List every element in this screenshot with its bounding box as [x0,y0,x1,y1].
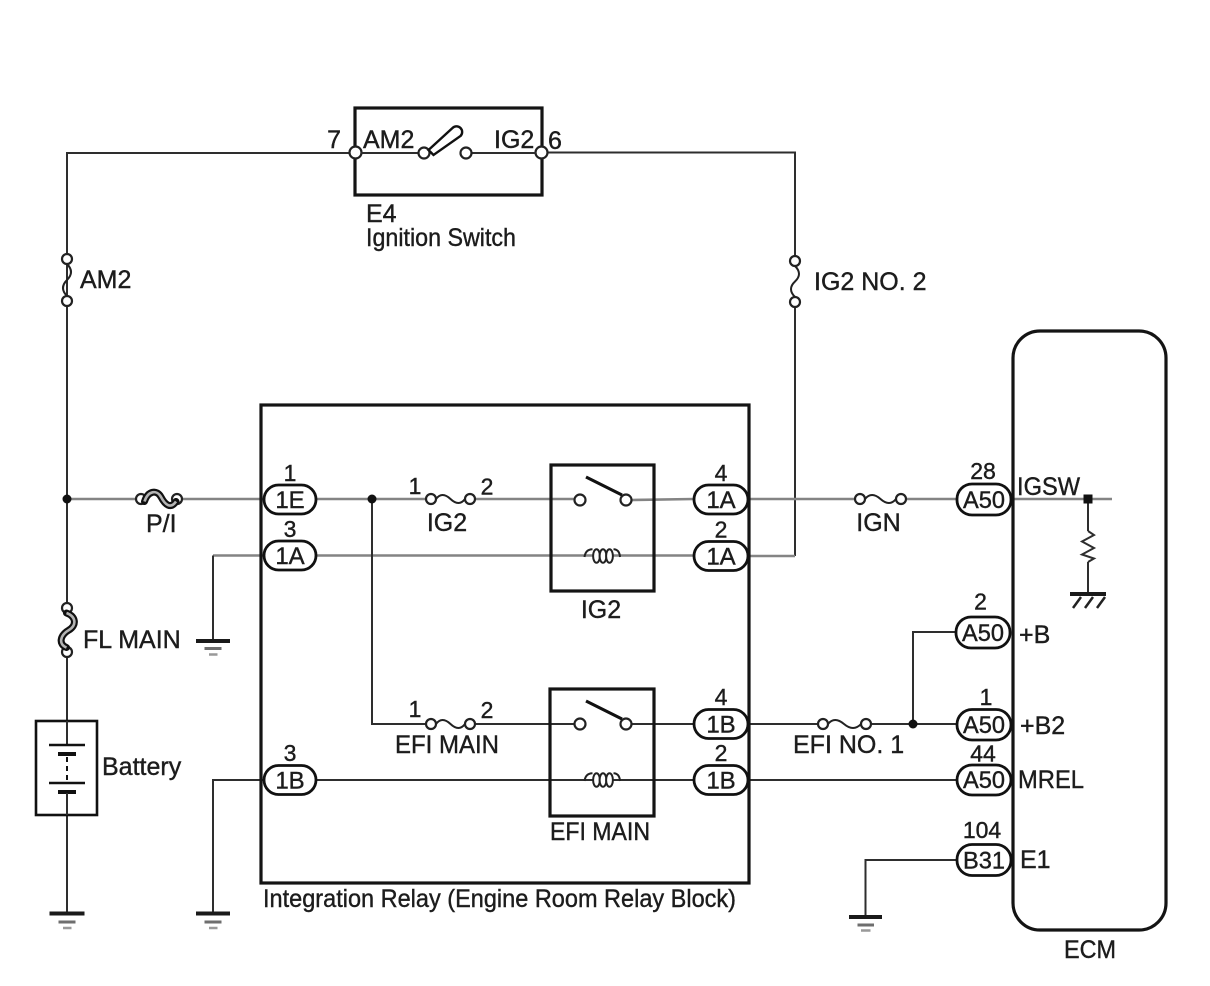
svg-text:28: 28 [970,458,996,484]
svg-text:3: 3 [284,740,297,766]
svg-text:IG2: IG2 [581,596,621,624]
svg-text:1: 1 [284,460,297,486]
svg-text:FL MAIN: FL MAIN [83,626,181,654]
svg-text:AM2: AM2 [80,266,131,294]
svg-text:3: 3 [284,516,297,542]
svg-text:A50: A50 [963,712,1005,739]
svg-text:Integration Relay (Engine Room: Integration Relay (Engine Room Relay Blo… [263,885,736,913]
svg-text:1B: 1B [706,712,735,739]
svg-text:P/I: P/I [146,510,177,538]
svg-text:1E: 1E [275,487,304,514]
svg-text:1A: 1A [706,544,735,571]
svg-text:+B2: +B2 [1020,712,1065,740]
svg-text:Battery: Battery [102,753,182,781]
svg-text:IG2: IG2 [494,126,534,154]
svg-text:1B: 1B [706,768,735,795]
svg-text:1A: 1A [275,543,304,570]
svg-text:A50: A50 [963,487,1005,514]
svg-text:1B: 1B [275,768,304,795]
svg-text:1: 1 [980,684,993,710]
svg-text:IGSW: IGSW [1017,473,1080,501]
svg-text:A50: A50 [962,620,1004,647]
svg-text:2: 2 [481,697,494,723]
svg-text:EFI NO. 1: EFI NO. 1 [793,731,904,759]
svg-text:2: 2 [715,517,728,543]
svg-text:4: 4 [715,460,728,486]
svg-text:1A: 1A [706,487,735,514]
svg-text:Ignition Switch: Ignition Switch [366,224,516,252]
svg-text:IG2 NO. 2: IG2 NO. 2 [814,268,927,296]
svg-text:MREL: MREL [1018,766,1084,794]
svg-text:2: 2 [974,589,987,615]
svg-text:AM2: AM2 [363,126,414,154]
svg-text:ECM: ECM [1064,936,1116,964]
svg-text:A50: A50 [963,767,1005,794]
svg-text:7: 7 [327,126,341,154]
svg-text:1: 1 [409,696,422,722]
svg-text:+B: +B [1019,621,1050,649]
svg-text:IGN: IGN [856,509,900,537]
svg-text:EFI MAIN: EFI MAIN [395,731,499,759]
svg-text:2: 2 [715,740,728,766]
svg-text:IG2: IG2 [427,509,467,537]
svg-text:6: 6 [548,127,562,155]
svg-text:2: 2 [481,474,494,500]
svg-text:B31: B31 [963,848,1005,875]
svg-text:1: 1 [409,473,422,499]
svg-text:104: 104 [963,817,1002,843]
svg-text:4: 4 [715,684,728,710]
svg-text:EFI MAIN: EFI MAIN [550,818,650,846]
svg-text:E1: E1 [1020,846,1051,874]
svg-text:44: 44 [970,741,996,767]
